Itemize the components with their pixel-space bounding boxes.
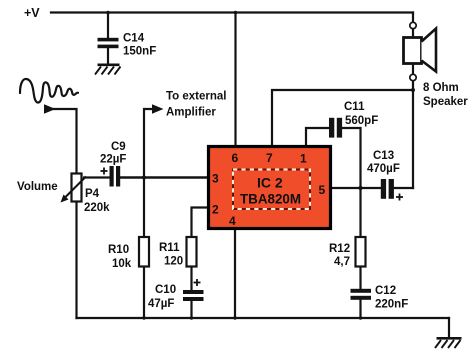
input signal squiggle (20, 79, 78, 103)
svg-text:1: 1 (300, 152, 307, 166)
svg-text:IC 2: IC 2 (257, 175, 283, 191)
wire C12 to rail (359, 300, 361, 318)
C10 polarity plus (194, 279, 201, 286)
op-amp IC U2 TBA820M body (209, 147, 331, 229)
svg-text:150nF: 150nF (123, 46, 156, 58)
svg-text:Speaker: Speaker (423, 96, 468, 108)
wire IC pin 4 to rail (234, 230, 236, 318)
wire pot bottom to bottom rail (75, 202, 77, 319)
node junction dots (106, 11, 415, 320)
wire branch to external amplifier (144, 109, 155, 178)
svg-text:4,7: 4,7 (334, 256, 350, 268)
svg-text:R11: R11 (159, 242, 180, 254)
svg-text:C10: C10 (155, 284, 176, 296)
wire speaker top terminal to box (412, 29, 414, 38)
svg-text:To external: To external (166, 91, 227, 103)
svg-text:C12: C12 (375, 285, 396, 297)
wire speaker top from rail (412, 13, 414, 23)
input arrow (44, 104, 56, 114)
ground symbol C14 (95, 65, 121, 75)
svg-text:C11: C11 (344, 101, 365, 113)
wire C14 tap from rail (107, 13, 109, 39)
svg-text:4: 4 (229, 214, 236, 228)
speaker LS1 bottom terminal (410, 74, 416, 80)
svg-text:6: 6 (232, 151, 239, 165)
resistor R12 (356, 237, 366, 267)
svg-text:8 Ohm: 8 Ohm (423, 82, 459, 94)
capacitor C14 (98, 38, 119, 48)
svg-text:C14: C14 (123, 33, 145, 45)
svg-text:P4: P4 (85, 188, 100, 200)
wire speaker bottom drop (412, 81, 414, 188)
svg-text:+V: +V (24, 6, 40, 20)
svg-text:5: 5 (319, 183, 326, 197)
svg-text:10k: 10k (112, 258, 132, 270)
svg-text:2: 2 (212, 203, 219, 217)
svg-text:22µF: 22µF (100, 154, 126, 166)
wire pin 6 to +V rail (234, 13, 236, 147)
wire R11 to C10 (190, 267, 192, 291)
svg-text:220nF: 220nF (375, 299, 408, 311)
svg-text:C9: C9 (111, 141, 126, 153)
svg-text:TBA820M: TBA820M (240, 192, 301, 207)
wire IC pin 5 to C13 (332, 187, 381, 189)
wire bottom rail (77, 317, 450, 319)
wire C14 to ground (107, 48, 109, 64)
C9 polarity plus (101, 168, 108, 175)
wire pot wiper to C9 (84, 176, 110, 178)
wire C11 right to pin5 node (342, 128, 361, 188)
wire node to R12 (359, 188, 361, 237)
wire R10 to rail (143, 178, 145, 238)
capacitor C11 (329, 118, 342, 138)
svg-text:Volume: Volume (17, 181, 58, 193)
wire +V top rail (51, 11, 413, 13)
svg-text:220k: 220k (84, 202, 110, 214)
svg-text:C13: C13 (373, 150, 394, 162)
resistor R11 (187, 237, 197, 267)
svg-text:R10: R10 (108, 244, 129, 256)
C13 polarity plus (396, 194, 403, 201)
wire C10 to rail (190, 301, 192, 318)
wire input arrow to pot (49, 109, 77, 173)
wire IC pin 1 to C11 (306, 128, 329, 146)
wire C13 to speaker drop (394, 187, 414, 189)
speaker LS1 top terminal (410, 22, 416, 28)
svg-text:47µF: 47µF (148, 298, 174, 310)
svg-text:Amplifier: Amplifier (166, 107, 216, 119)
resistor R10 (139, 237, 149, 267)
svg-text:560pF: 560pF (345, 115, 378, 127)
svg-text:120: 120 (164, 256, 183, 268)
svg-text:R12: R12 (329, 243, 350, 255)
capacitor C12 (351, 289, 372, 300)
ground symbol bottom right (435, 338, 462, 348)
wire R12 to C12 (359, 267, 361, 290)
potentiometer P4 (72, 174, 82, 202)
speaker LS1 cone (422, 29, 437, 72)
svg-text:470µF: 470µF (367, 163, 400, 175)
wire IC pin 7 up and right to speaker line (272, 90, 413, 146)
capacitor C9 (110, 166, 121, 187)
svg-text:3: 3 (212, 172, 219, 186)
svg-text:7: 7 (266, 151, 273, 165)
P4 wiper arrow (63, 177, 86, 200)
wire C9 to IC pin 3 (120, 176, 207, 179)
speaker LS1 body (404, 38, 422, 64)
capacitor C13 (381, 179, 394, 199)
wire ground drop right (448, 318, 450, 338)
arrow to external amplifier (152, 104, 164, 114)
wire speaker box to bottom terminal (412, 64, 414, 75)
capacitor C10 (183, 290, 204, 301)
wire IC pin 2 to R11 (192, 208, 208, 238)
IC2 inner dashed box (233, 170, 310, 210)
